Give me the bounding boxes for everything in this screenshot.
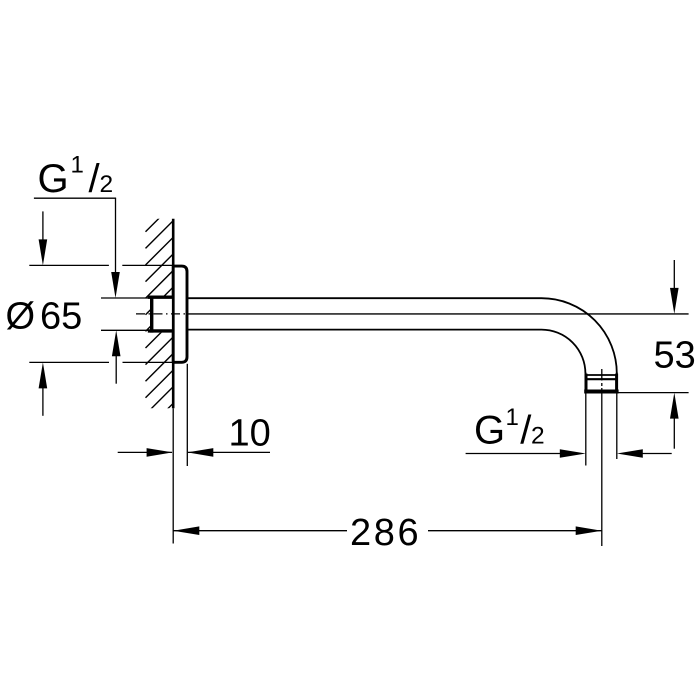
wall surface line	[172, 219, 175, 408]
svg-text:286: 286	[350, 512, 421, 554]
dim 53 upper line	[673, 260, 675, 290]
downtube short straight edges	[585, 373, 587, 376]
G1/2 bottom dim line left segment	[466, 453, 560, 455]
G1/2 left up arrow line	[115, 353, 117, 384]
fitting centerline dash-dot	[136, 313, 187, 315]
dim 53 bottom extension line	[618, 392, 689, 394]
Ø65 down arrow line	[42, 211, 44, 242]
thread collar left edge	[585, 374, 588, 394]
wall line thin continuation (ext line for 10 and 286)	[172, 408, 174, 543]
dim 10 left arrow (points right)	[147, 448, 173, 457]
svg-text:Ø: Ø	[6, 296, 36, 338]
downtube centerline dash-dot (286 right extension)	[601, 369, 603, 388]
arm tube middle reflection line (also 53-dim top extension)	[188, 313, 688, 315]
G1/2 bottom dim line right segment	[642, 453, 672, 455]
dim 286 line left part	[173, 530, 347, 532]
svg-text:1: 1	[506, 404, 519, 431]
svg-text:2: 2	[531, 422, 545, 449]
dim 53 lower line	[673, 416, 675, 449]
G1/2 left dim line down	[115, 198, 117, 275]
dim 10 right segment	[188, 451, 270, 453]
G1/2 bottom left arrow (points right)	[560, 449, 586, 458]
G1/2 left down arrow	[111, 272, 120, 298]
downtube right extension line below thread	[616, 394, 618, 460]
pipe stub in wall	[150, 296, 174, 333]
thread collar top line	[586, 374, 617, 376]
downtube left extension line below thread	[585, 394, 587, 466]
wall hatching	[146, 204, 173, 447]
dim Ø65 top extension line	[29, 264, 173, 266]
elbow inner arc	[542, 330, 586, 374]
dim 53 up arrow	[670, 393, 679, 419]
dim Ø65 bottom extension line	[29, 361, 173, 363]
escutcheon flange	[173, 266, 187, 362]
elbow outer arc	[542, 298, 617, 373]
svg-text:1: 1	[71, 152, 84, 179]
label G1/2 top-left leader underline	[34, 197, 116, 199]
arm tube bottom line	[188, 329, 541, 331]
thread collar right edge	[615, 374, 618, 394]
dim 286 right arrow (points right)	[576, 526, 602, 535]
pipe top extension line	[101, 297, 150, 299]
G1/2 left up arrow	[112, 330, 121, 356]
dim 53 down arrow	[670, 288, 679, 314]
thread collar second line	[586, 378, 617, 380]
Ø65 up arrow	[39, 362, 48, 388]
dim 10 right arrow (points left)	[187, 448, 213, 457]
dim 286 left arrow (points left)	[173, 526, 199, 535]
pipe bottom extension line	[101, 329, 150, 331]
arm tube top line	[188, 297, 541, 299]
G1/2 bottom right arrow (points left)	[617, 449, 643, 458]
svg-text:65: 65	[40, 296, 82, 338]
dim 286 line right part	[428, 530, 602, 532]
thread collar bottom bar	[584, 390, 618, 394]
svg-text:53: 53	[654, 334, 696, 376]
Ø65 down arrow	[39, 239, 48, 265]
svg-text:2: 2	[100, 171, 114, 198]
flange-edge extension line for 10	[186, 364, 188, 466]
dim 10 left segment	[118, 451, 172, 453]
svg-text:G: G	[38, 157, 69, 201]
svg-text:10: 10	[229, 412, 271, 454]
svg-text:G: G	[474, 408, 505, 452]
Ø65 up arrow line	[42, 386, 44, 416]
